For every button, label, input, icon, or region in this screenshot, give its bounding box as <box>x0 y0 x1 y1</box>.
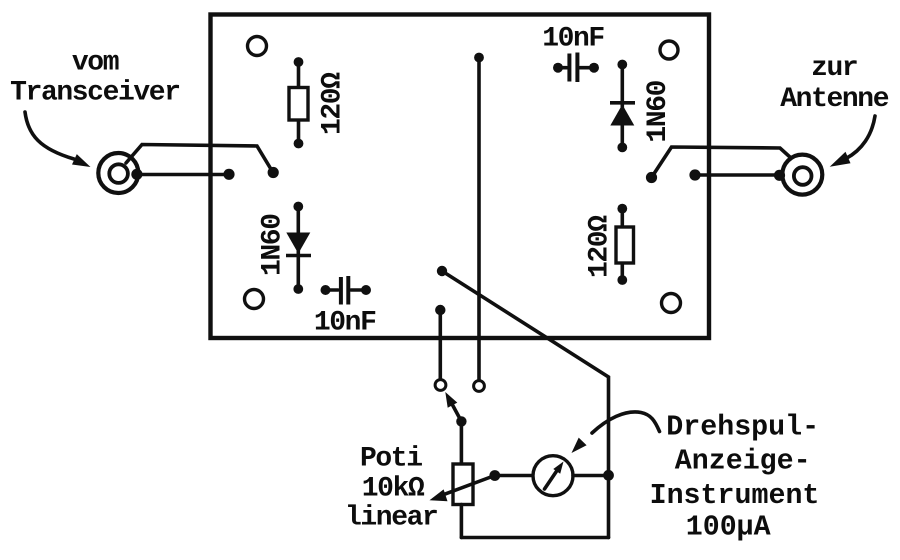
mounting hole top-left <box>248 37 267 56</box>
arrow: label to meter M1 <box>572 412 660 453</box>
value label 1N60 (right) <box>643 80 674 142</box>
wire: J1 lower stub to contact <box>138 169 235 180</box>
svg-text:10kΩ: 10kΩ <box>362 474 425 505</box>
svg-text:1N60: 1N60 <box>258 214 289 276</box>
potentiometer P1 10k <box>453 421 473 537</box>
svg-text:Drehspul-: Drehspul- <box>666 412 819 444</box>
wire: diagonal from board pad to meter branch <box>437 266 609 538</box>
mounting hole top-right <box>660 41 678 59</box>
svg-text:vom: vom <box>72 47 119 78</box>
wire: J1 upper path into board with bent contact arm <box>126 145 279 179</box>
wire: bottom return rail <box>461 536 608 540</box>
value label 120R (right) <box>585 215 616 278</box>
svg-text:Transceiver: Transceiver <box>10 78 179 109</box>
resistor R2 120R (right) <box>616 204 634 285</box>
svg-text:120Ω: 120Ω <box>585 215 616 278</box>
svg-text:zur: zur <box>811 53 857 84</box>
node: open switch contact A <box>435 380 446 391</box>
svg-text:Antenne: Antenne <box>780 84 888 115</box>
label: Poti 10kOhm linear <box>345 443 437 533</box>
value label 10nF (bottom-left) <box>314 308 376 339</box>
label: vom Transceiver <box>10 47 179 108</box>
svg-text:1N60: 1N60 <box>643 80 674 142</box>
svg-text:100µA: 100µA <box>686 512 771 544</box>
node: open switch contact B <box>474 381 485 392</box>
diode D2 1N60 (right, cathode up) <box>610 60 635 153</box>
capacitor C2 10nF (top) <box>553 53 599 83</box>
value label 1N60 (left) <box>258 214 289 276</box>
coax socket J1 (vom Transceiver) <box>98 153 138 193</box>
resistor R1 120R (left) <box>289 57 308 148</box>
wire: sense line from top pad to switch contact B <box>474 53 484 380</box>
board outline (PCB) <box>211 15 710 339</box>
svg-text:Poti: Poti <box>360 443 422 474</box>
wire: wiper to meter <box>495 474 533 478</box>
potentiometer wiper arrow <box>430 470 501 501</box>
svg-text:linear: linear <box>345 502 437 533</box>
capacitor C1 10nF (bottom-left) <box>321 276 372 305</box>
svg-text:10nF: 10nF <box>314 308 376 339</box>
wire: J2 lower stub to contact <box>689 169 780 180</box>
meter M1 (moving coil instrument) <box>533 456 573 496</box>
label: Drehspul-Anzeige-Instrument 100uA <box>650 412 820 544</box>
wire: branch from pad to switch contact A <box>435 305 445 379</box>
wire: meter to right rail <box>573 470 614 481</box>
node: J1 solder pad <box>131 169 142 180</box>
coax socket J2 (zur Antenne) <box>782 155 822 195</box>
value label 10nF (top) <box>542 23 604 54</box>
svg-text:Instrument: Instrument <box>650 480 820 512</box>
svg-text:120Ω: 120Ω <box>318 72 349 135</box>
svg-text:Anzeige-: Anzeige- <box>675 445 811 477</box>
arrow: zur Antenne to J2 <box>830 116 875 167</box>
value label 120R (left) <box>318 72 349 135</box>
label: zur Antenne <box>780 53 888 115</box>
switch arm S1 (selector arrow) <box>445 392 466 427</box>
wire: J2 upper path into board with bent contact arm <box>646 147 791 183</box>
mounting hole bottom-left <box>245 290 264 309</box>
svg-text:10nF: 10nF <box>542 23 604 54</box>
mounting hole bottom-right <box>662 294 681 313</box>
arrow: vom Transceiver to J1 <box>25 112 91 167</box>
diode D1 1N60 (left, cathode down) <box>286 202 311 294</box>
node: J2 solder pad <box>774 170 785 181</box>
